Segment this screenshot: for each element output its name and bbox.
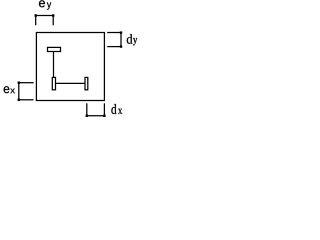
tick ey right — [52, 14, 54, 16]
label dy subscript y — [133, 38, 137, 45]
dimension ey: left extension — [35, 16, 37, 26]
label ey subscript y — [47, 2, 51, 9]
tick ex top — [18, 82, 20, 84]
T-profile flange — [48, 47, 61, 51]
dimension ex: bottom extension — [19, 99, 34, 101]
tick ey left — [35, 14, 37, 16]
tick dy top — [120, 31, 122, 33]
outer square — [36, 33, 104, 101]
I-profile web (wire) — [56, 82, 86, 84]
dimension ex: top extension — [19, 82, 34, 84]
label dx letter d — [111, 104, 116, 114]
dimension ey: dim line — [36, 15, 54, 17]
I-profile left flange — [52, 77, 55, 89]
dimension dx: dim line — [87, 115, 105, 117]
dimension dx: right extension — [103, 103, 105, 116]
tick dy bottom — [120, 45, 122, 47]
label dx subscript x — [118, 109, 122, 114]
dimension dy: top extension — [107, 32, 121, 34]
label dy letter d — [127, 34, 133, 44]
dimension dy: dim line — [120, 33, 122, 47]
dimension dy: bottom extension — [107, 46, 121, 48]
I-profile right flange — [85, 77, 88, 89]
dimension dx: left extension — [86, 103, 88, 116]
dimension ey: right extension — [52, 16, 54, 26]
label ex subscript x — [10, 89, 15, 94]
T-profile stem (wire) — [53, 52, 55, 78]
tick ex bottom — [18, 99, 20, 101]
tick dx left — [86, 115, 88, 117]
label ey letter e — [39, 0, 45, 7]
tick dx right — [103, 115, 105, 117]
label ex letter e — [4, 86, 10, 93]
dimension ex: dim line — [18, 83, 20, 100]
